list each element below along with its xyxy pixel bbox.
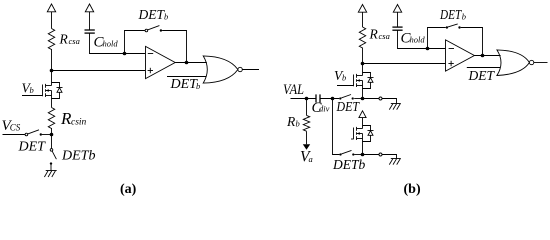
- supply arrow Va (b): [303, 144, 310, 150]
- bottom node junction (b): [361, 153, 365, 157]
- body diode of M2 (b): [363, 73, 374, 89]
- svg-text:DET: DET: [138, 7, 166, 22]
- supply triangle (b) top-left: [358, 5, 366, 28]
- supply triangle (a) top-left: [47, 4, 55, 29]
- wire M3 source to bottom node (b): [362, 139, 364, 155]
- svg-text:CS: CS: [10, 122, 21, 132]
- NOR gate (b): [497, 50, 534, 76]
- label Rcsa (a): [59, 32, 80, 47]
- svg-text:csa: csa: [69, 36, 80, 46]
- figure label (b): [404, 182, 421, 197]
- switch DETb bottom (b): [339, 150, 362, 155]
- label Rcsa (b): [369, 27, 390, 42]
- switch DET (a): [25, 130, 51, 136]
- NOR output wire (b): [534, 62, 548, 64]
- svg-text:DETb: DETb: [332, 157, 366, 172]
- transistor M1 (a): [22, 84, 52, 97]
- label Vb gate (a): [22, 80, 34, 95]
- node M2 source on middle line (b): [361, 97, 365, 101]
- wire node to comparator plus input (b): [363, 63, 446, 65]
- ground bottom-right (b): [389, 159, 401, 165]
- comparator U1 (a): [146, 46, 176, 78]
- node junction below Rcsa (a): [50, 69, 54, 73]
- body diode of M1 (a): [52, 83, 63, 99]
- resistor Rcsa (b): [359, 27, 365, 48]
- connector circle middle (b): [379, 97, 382, 100]
- wire Vcs to switch (a): [3, 134, 25, 136]
- switch DETb to ground (a): [50, 135, 57, 171]
- NOR output wire (a): [242, 69, 259, 71]
- wire node to M2 drain (b): [362, 64, 364, 76]
- wire Cdiv junction down to DETb switch (b): [333, 99, 340, 155]
- svg-text:DET: DET: [170, 77, 199, 92]
- resistor Rcsa (a): [48, 29, 54, 50]
- junction output feedback (b): [481, 54, 485, 58]
- ground middle-right (b): [389, 104, 401, 110]
- figure label (a): [120, 182, 137, 197]
- svg-text:div: div: [319, 104, 330, 114]
- label DETb bottom switch (b): [332, 157, 366, 172]
- wire middle node to right connector (b): [363, 98, 380, 100]
- svg-text:b: b: [196, 81, 200, 91]
- capacitor Chold (b): [392, 27, 402, 30]
- comparator U2 (b): [446, 40, 475, 71]
- junction output feedback (a): [185, 61, 189, 65]
- supply triangle (b) for Chold: [393, 5, 401, 28]
- svg-text:b: b: [30, 85, 34, 95]
- label DET NOR input (b): [468, 68, 496, 83]
- wire Rcsin to bottom node (a): [51, 128, 53, 135]
- wire VAL to Cdiv (b): [291, 98, 316, 100]
- label DET switch (a): [18, 140, 47, 155]
- svg-text:DETb: DETb: [61, 149, 95, 164]
- node junction below Rcsa (b): [361, 62, 365, 66]
- svg-text:DET: DET: [18, 140, 47, 155]
- output wire comparator to NOR (b): [474, 55, 500, 57]
- svg-text:b: b: [462, 11, 466, 21]
- feedback wire right-down to output (b): [461, 28, 483, 56]
- svg-text:b: b: [296, 119, 300, 129]
- transistor M2 (b): [337, 74, 363, 87]
- label DET middle switch (b): [336, 99, 361, 114]
- svg-text:b: b: [164, 12, 168, 22]
- svg-text:R: R: [369, 27, 379, 42]
- svg-text:(a): (a): [120, 182, 137, 197]
- junction Cdiv drop (b): [331, 97, 335, 101]
- wire bottom node to connector (b): [363, 154, 380, 156]
- supply triangle (a) for Chold: [85, 4, 93, 30]
- label DETb switch (a): [61, 149, 95, 164]
- ground (a): [44, 171, 56, 178]
- junction Rb on VAL line (b): [305, 97, 309, 101]
- transistor M3 (b): [351, 127, 363, 140]
- bottom node junction (a): [50, 133, 54, 137]
- label Vcs (a): [2, 118, 21, 134]
- feedback wire up-right (b): [428, 28, 446, 49]
- label DETb NOR input (a): [170, 77, 201, 92]
- label Rb (b): [286, 114, 300, 129]
- supply triangle (b) for M3: [359, 111, 366, 129]
- NOR bottom input wire DETb (a): [167, 76, 207, 78]
- wire M1 source to Rcsin (a): [51, 96, 53, 108]
- svg-text:hold: hold: [410, 35, 426, 45]
- wire node to comparator plus input (a): [52, 70, 146, 72]
- wire connector to bottom ground (b): [382, 155, 397, 159]
- label Chold (b): [401, 30, 426, 46]
- svg-text:R: R: [59, 32, 69, 47]
- svg-text:csin: csin: [71, 118, 87, 128]
- junction feedback on minus line (b): [426, 47, 430, 51]
- label Chold (a): [94, 34, 119, 50]
- label Rcsin (a): [60, 109, 87, 128]
- wire Chold to minus line (a): [90, 33, 146, 53]
- NOR bottom input wire DET (b): [467, 67, 501, 69]
- svg-text:hold: hold: [103, 39, 119, 49]
- svg-text:VAL: VAL: [283, 82, 304, 98]
- wire Chold to minus line (b): [398, 30, 446, 48]
- label DETb feedback switch (b): [439, 7, 466, 22]
- wire connector to ground (b): [382, 99, 397, 104]
- label Cdiv (b): [312, 100, 330, 116]
- svg-text:csa: csa: [379, 31, 390, 41]
- feedback wire up-left (a): [125, 31, 145, 54]
- junction feedback on minus line (a): [123, 52, 127, 56]
- svg-text:(b): (b): [404, 182, 421, 197]
- connector circle bottom (b): [379, 153, 382, 156]
- svg-text:a: a: [309, 154, 313, 164]
- svg-text:DET: DET: [468, 68, 496, 83]
- switch DETb feedback (b): [446, 24, 461, 29]
- resistor Rcsin (a): [48, 108, 54, 129]
- NOR gate (a): [203, 56, 242, 83]
- svg-text:DET: DET: [439, 7, 462, 22]
- capacitor Cdiv (b): [316, 94, 320, 102]
- capacitor Chold (a): [85, 30, 95, 33]
- label Vb gate (b): [334, 68, 346, 83]
- svg-text:b: b: [342, 73, 346, 83]
- output wire comparator to NOR (a): [175, 62, 207, 64]
- wire Rcsa to node (a): [51, 49, 53, 71]
- switch DETb feedback (a): [145, 26, 162, 32]
- svg-text:R: R: [286, 114, 296, 129]
- wire node to MOSFET drain (a): [51, 71, 53, 86]
- label Va (b): [300, 149, 313, 166]
- feedback wire right-down to output (a): [162, 31, 186, 63]
- resistor Rb (b): [303, 99, 309, 145]
- wire M2 source to middle line (b): [362, 86, 364, 99]
- body diode of M3 (b): [363, 126, 374, 142]
- label VAL (b): [283, 82, 304, 98]
- wire Rcsa to node (b): [362, 48, 364, 64]
- switch DET middle (b): [339, 95, 362, 100]
- wire Cdiv to switch node (b): [320, 98, 339, 100]
- label DETb feedback switch (a): [138, 7, 169, 22]
- svg-text:DET: DET: [336, 99, 361, 114]
